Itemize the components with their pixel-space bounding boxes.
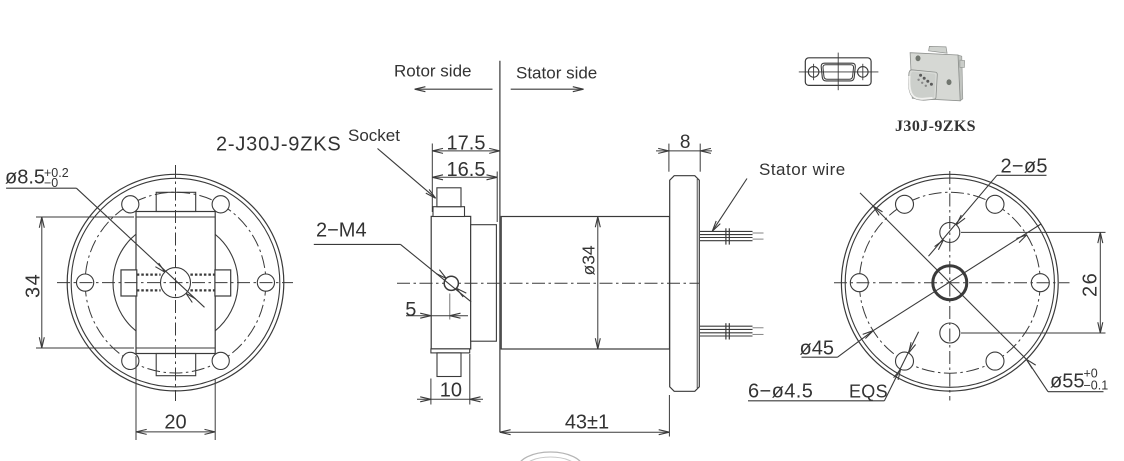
- stator wires bottom group: [700, 323, 764, 339]
- right view 2 holes Ø5: [940, 222, 960, 343]
- label 2-M4 with leader: [314, 220, 471, 302]
- right view 6 holes Ø4.5: [850, 195, 1049, 370]
- svg-text:−0.1: −0.1: [1084, 379, 1109, 393]
- left view right screw cap: [215, 270, 231, 296]
- right view bolt circle (dash-dot): [859, 192, 1040, 373]
- dimension 16.5: [432, 159, 497, 222]
- svg-text:2-J30J-9ZKS: 2-J30J-9ZKS: [216, 134, 342, 156]
- dimension 43±1: [500, 395, 670, 437]
- rotor/stator separator line: [499, 61, 501, 433]
- svg-text:17.5: 17.5: [447, 133, 486, 155]
- svg-text:ø34: ø34: [579, 245, 599, 275]
- bottom socket: [431, 349, 470, 377]
- connector photo (J30J-9ZKS): [908, 46, 964, 100]
- dimension 10: [417, 354, 483, 405]
- dimension 8: [656, 132, 712, 172]
- svg-text:Rotor side: Rotor side: [394, 62, 471, 81]
- stator wires top group: [700, 228, 764, 244]
- dimension 20 (bottom of left view): [136, 356, 215, 440]
- stator flange: [670, 176, 700, 392]
- svg-text:Stator side: Stator side: [516, 64, 597, 83]
- svg-text:34: 34: [23, 273, 45, 298]
- right view center hub: [933, 266, 967, 300]
- dimension 17.5: [432, 133, 500, 213]
- right view center lines: [834, 171, 1070, 401]
- svg-text:16.5: 16.5: [447, 159, 486, 181]
- label Stator wire with leader: [712, 160, 845, 231]
- svg-text:Socket: Socket: [348, 126, 400, 145]
- left view bolt circle (dash-dot): [85, 192, 266, 373]
- dimension 34 (left): [23, 217, 135, 348]
- svg-text:J30J-9ZKS: J30J-9ZKS: [895, 118, 976, 135]
- main body cylinder: [501, 217, 669, 350]
- left view 6 mounting holes: [77, 196, 275, 370]
- left view bottom socket: [156, 354, 196, 376]
- left view outer flange circle: [67, 174, 284, 391]
- left view rotor body rectangle: [136, 212, 215, 354]
- left view left screw cap: [121, 270, 137, 296]
- Ø45 diagonal leader line: [800, 224, 1042, 360]
- M4 screw circle: [444, 276, 458, 290]
- Ø55 diagonal leader line: [860, 193, 1108, 393]
- left view center lines: [57, 165, 293, 401]
- label Ø8.5 +0.2/-0 with leader: [5, 166, 205, 307]
- left view top socket: [156, 192, 196, 211]
- svg-text:Stator wire: Stator wire: [759, 160, 846, 179]
- spacer section: [471, 225, 497, 342]
- svg-text:2−ø5: 2−ø5: [1001, 156, 1048, 178]
- connector face drawing (D-sub outline): [799, 53, 879, 91]
- label Stator side with arrow: [511, 64, 598, 92]
- label 2-Ø5 with leader: [929, 156, 1048, 257]
- svg-text:EQS: EQS: [849, 382, 888, 402]
- dimension 5: [405, 294, 468, 322]
- top socket cap: [433, 188, 465, 217]
- svg-text:6−ø4.5: 6−ø4.5: [748, 381, 813, 403]
- svg-text:8: 8: [680, 132, 691, 153]
- svg-text:2−M4: 2−M4: [316, 220, 367, 242]
- svg-text:43±1: 43±1: [565, 412, 609, 434]
- svg-text:5: 5: [405, 299, 416, 321]
- rotor flange plate: [431, 216, 471, 349]
- left view inner body circle: [113, 220, 238, 345]
- left view center hole (Ø8.5): [161, 268, 191, 298]
- label 6-Ø4.5 EQS with leader: [748, 332, 919, 403]
- svg-text:ø8.5: ø8.5: [5, 167, 45, 189]
- label Rotor side with arrow: [394, 62, 493, 92]
- svg-text:ø55: ø55: [1050, 371, 1084, 393]
- svg-text:10: 10: [440, 380, 462, 402]
- label Socket with leader: [348, 126, 436, 198]
- svg-text:ø45: ø45: [800, 338, 834, 360]
- right view outer flange circle: [841, 174, 1058, 391]
- svg-text:26: 26: [1080, 272, 1102, 297]
- stator flange inner edge line: [696, 179, 698, 388]
- watermark ellipse (bottom): [518, 452, 583, 461]
- middle view center line: [397, 282, 699, 284]
- left view thread shafts: [137, 275, 215, 291]
- svg-text:20: 20: [164, 412, 186, 434]
- dimension Ø34: [579, 217, 601, 349]
- dimension 26: [961, 232, 1106, 333]
